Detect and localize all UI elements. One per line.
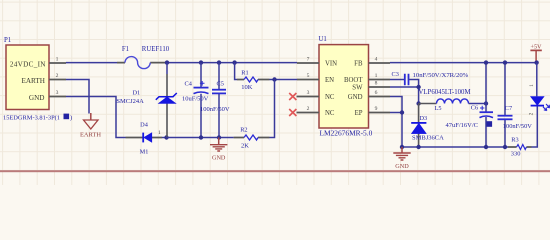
svg-text:10K: 10K: [241, 84, 253, 91]
svg-text:10uF/50V: 10uF/50V: [182, 96, 209, 103]
U1 pin 6 GND: [369, 90, 391, 96]
wire D4 to junction: [162, 137, 167, 139]
junction +5V: [534, 60, 538, 64]
svg-text:BOOT: BOOT: [344, 77, 363, 84]
wire top rail fuse to VIN: [167, 62, 297, 64]
junction GND rail: [400, 145, 404, 149]
junction C6 top rail: [484, 60, 488, 64]
power +5V: [530, 43, 542, 61]
junction C4 bottom: [199, 135, 203, 139]
svg-text:1: 1: [56, 57, 59, 63]
svg-text:D1: D1: [133, 90, 141, 97]
svg-text:3: 3: [307, 90, 310, 96]
junction R1/R2/EN: [272, 77, 276, 81]
wire R2 riser: [270, 80, 275, 138]
diode D3 TVS: [411, 104, 444, 148]
capacitor C6: [446, 63, 494, 147]
wire node to L5: [419, 103, 437, 105]
junction C4 top: [199, 60, 203, 64]
diode D4: [126, 121, 163, 155]
svg-text:5: 5: [307, 73, 310, 79]
svg-text:2: 2: [307, 106, 310, 112]
inductor L5: [419, 89, 471, 112]
svg-text:8: 8: [375, 81, 378, 87]
svg-text:L5: L5: [435, 105, 442, 112]
svg-text:SMCJ24A: SMCJ24A: [116, 98, 144, 105]
svg-text:+5V: +5V: [530, 43, 542, 50]
svg-text:EP: EP: [355, 110, 363, 117]
wire pin1 to fuse: [66, 62, 117, 64]
svg-text:EARTH: EARTH: [21, 77, 45, 85]
capacitor C7: [498, 63, 533, 147]
junction C6 bottom: [484, 145, 488, 149]
svg-text:C6: C6: [471, 105, 478, 112]
op-amp U1 regulator box: [319, 36, 373, 137]
svg-text:47uF/16V/C: 47uF/16V/C: [446, 122, 479, 129]
no connect X pin 3: [289, 93, 296, 100]
svg-text:3: 3: [56, 90, 59, 96]
junction fuse/D1: [165, 60, 169, 64]
svg-text:FB: FB: [354, 60, 363, 67]
svg-text:P1: P1: [4, 37, 11, 44]
svg-text:R1: R1: [241, 69, 248, 76]
junction D3 bottom: [416, 145, 420, 149]
wire R3 to LED: [532, 107, 538, 148]
svg-text:2: 2: [529, 112, 535, 115]
wire bottom-left rail: [167, 137, 234, 139]
no connect X pin 2: [289, 109, 296, 116]
U1 pin 3 NC: [297, 90, 320, 96]
capacitor C3: [392, 71, 469, 85]
junction D1 bottom: [164, 135, 168, 139]
svg-text:C4: C4: [185, 81, 193, 88]
junction EP/GND: [400, 110, 404, 114]
svg-text:2K: 2K: [241, 142, 249, 149]
svg-text:NC: NC: [325, 94, 335, 101]
U1 pin 2 NC: [297, 106, 320, 112]
svg-text:GND: GND: [212, 155, 226, 162]
wire bottom-right rail: [402, 146, 508, 148]
svg-text:9: 9: [375, 106, 378, 112]
svg-text:VLP6045LT-100M: VLP6045LT-100M: [419, 89, 471, 96]
svg-text:GND: GND: [348, 94, 363, 101]
svg-text:SW: SW: [352, 85, 363, 92]
resistor R3: [508, 136, 532, 157]
svg-text:D4: D4: [140, 121, 149, 128]
junction R1 top: [232, 60, 236, 64]
svg-text:VIN: VIN: [325, 60, 337, 67]
wire pin3 to D4: [66, 97, 126, 138]
capacitor C4: [182, 63, 209, 138]
junction C5/GND bottom: [217, 135, 221, 139]
svg-text:M1: M1: [140, 149, 149, 156]
wire FB to +5V rail: [390, 62, 537, 64]
P1 pin 2: [49, 73, 66, 80]
capacitor C5: [200, 63, 230, 138]
svg-text:100nF/50V: 100nF/50V: [200, 106, 230, 113]
U1 pin 8 SW: [369, 81, 391, 87]
ground GND right: [393, 147, 410, 170]
svg-text:100nF/50V: 100nF/50V: [503, 123, 533, 130]
U1 pin 9 EP: [369, 106, 391, 112]
fuse F1: [117, 46, 170, 69]
wire EP to riser: [390, 112, 402, 114]
svg-text:LM22676MR-5.0: LM22676MR-5.0: [320, 128, 373, 137]
wire pin2 to earth: [66, 80, 89, 114]
svg-text:NC: NC: [325, 110, 335, 117]
svg-text:15EDGRM-3.81-3P(1: 15EDGRM-3.81-3P(1: [3, 115, 60, 122]
P1 pin 1: [49, 57, 66, 63]
svg-text:330: 330: [511, 150, 521, 157]
junction SW/L5/D3: [416, 101, 420, 105]
earth symbol: [80, 113, 101, 139]
wire BOOT to C3: [390, 79, 405, 81]
svg-text:GND: GND: [395, 163, 409, 170]
svg-text:C5: C5: [217, 81, 224, 88]
svg-text:C3: C3: [392, 71, 399, 78]
junction C7/R3: [503, 145, 507, 149]
svg-text:): ): [70, 115, 72, 122]
U1 pin 7 VIN: [297, 57, 319, 63]
resistor R1: [235, 63, 270, 91]
svg-text:EN: EN: [325, 77, 334, 84]
ground GND left: [210, 138, 227, 162]
svg-text:U1: U1: [319, 36, 327, 43]
svg-text:1: 1: [158, 130, 161, 136]
svg-text:10nF/50V/X7R/20%: 10nF/50V/X7R/20%: [413, 72, 469, 79]
LED: [529, 63, 550, 116]
svg-text:1: 1: [529, 84, 535, 87]
svg-text:C7: C7: [505, 105, 512, 112]
junction L5/C6: [484, 101, 488, 105]
wire L5 to C6 node: [469, 103, 487, 105]
svg-text:1: 1: [375, 73, 378, 79]
junction C5 top: [217, 60, 221, 64]
svg-text:RUEF110: RUEF110: [142, 46, 170, 53]
wire SW to node: [390, 87, 419, 104]
svg-text:SMBJ36CA: SMBJ36CA: [412, 135, 444, 142]
diode D1 TVS: [116, 63, 176, 138]
svg-text:R2: R2: [240, 127, 247, 134]
svg-text:6: 6: [375, 90, 378, 96]
junction C7 top rail: [503, 60, 507, 64]
U1 pin 1 BOOT: [369, 73, 391, 79]
svg-text:R3: R3: [511, 136, 518, 143]
connector P1: [3, 37, 72, 122]
wire C3 to SW node: [409, 80, 419, 88]
svg-text:7: 7: [307, 57, 310, 63]
P1 pin 3: [49, 90, 66, 97]
svg-text:24VDC_IN: 24VDC_IN: [10, 60, 46, 68]
svg-text:GND: GND: [29, 94, 45, 102]
svg-text:EARTH: EARTH: [80, 132, 101, 139]
resistor R2: [234, 127, 270, 150]
svg-text:D3: D3: [420, 115, 428, 122]
U1 pin 5 EN: [297, 73, 319, 79]
svg-text:2: 2: [56, 73, 59, 79]
wire GND pin riser: [390, 97, 402, 148]
svg-text:4: 4: [375, 57, 378, 63]
junction SW/C3: [416, 85, 420, 89]
wire R1 to EN: [270, 79, 298, 81]
svg-text:F1: F1: [122, 46, 129, 53]
U1 pin 4 FB: [369, 57, 391, 63]
